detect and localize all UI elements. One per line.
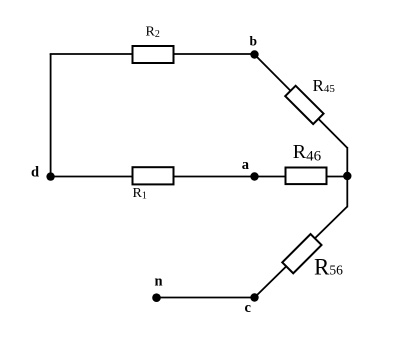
wire d to R1: [51, 176, 133, 178]
junction node right: [343, 172, 351, 180]
node b: [250, 50, 258, 58]
node c: [250, 293, 258, 301]
wire diagonal right vertical to node c: [255, 207, 348, 298]
wire R46 to junction: [326, 176, 347, 178]
resistor R1: [133, 167, 174, 184]
wire diagonal node b to right vertical: [255, 55, 348, 148]
resistor R45: [285, 86, 323, 124]
svg-text:n: n: [155, 274, 163, 290]
svg-text:d: d: [31, 165, 39, 181]
wire n to c bottom horizontal: [157, 297, 255, 299]
svg-text:c: c: [245, 300, 252, 316]
svg-text:a: a: [242, 157, 250, 173]
wire R2 to node b: [173, 53, 255, 55]
node d: [46, 172, 54, 180]
node a: [250, 172, 258, 180]
wire node a to R46: [255, 176, 287, 178]
wire R1 to node a: [173, 176, 255, 178]
wire d vertical left: [50, 54, 52, 177]
svg-text:b: b: [250, 33, 258, 48]
resistor R56: [282, 234, 321, 273]
resistor R46: [286, 168, 327, 185]
wire right vertical segment: [346, 147, 348, 207]
resistor R2: [133, 46, 174, 63]
wire top horizontal d-corner to R2: [50, 53, 133, 55]
node n: [152, 293, 161, 302]
